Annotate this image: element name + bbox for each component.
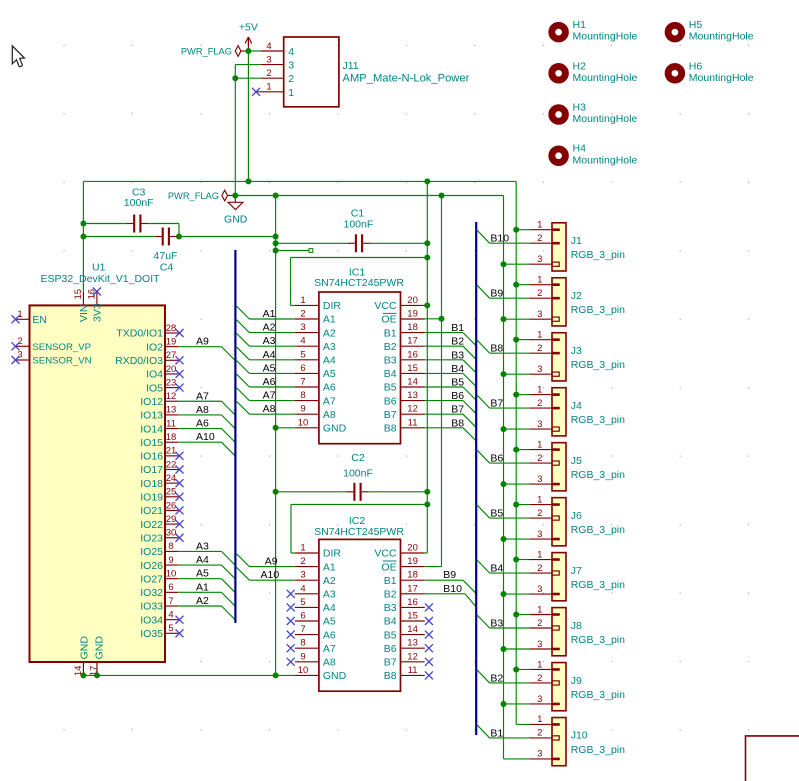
- svg-text:A5: A5: [263, 362, 276, 374]
- U1 pin 5 IO35 (no connect): [164, 632, 178, 634]
- svg-text:19: 19: [407, 309, 418, 320]
- IC2 pin 7 A6 (no connect): [295, 634, 319, 636]
- svg-text:RGB_3_pin: RGB_3_pin: [571, 634, 625, 646]
- svg-text:8: 8: [300, 390, 305, 401]
- svg-text:7: 7: [168, 596, 173, 607]
- J11 pin 1 (no connect): [257, 91, 284, 93]
- svg-text:C4: C4: [160, 262, 174, 274]
- junction GND rail at J8 pin 3: [501, 646, 507, 652]
- svg-text:IO21: IO21: [140, 505, 163, 517]
- svg-text:3: 3: [537, 584, 542, 595]
- svg-text:2: 2: [537, 288, 542, 299]
- svg-text:A6: A6: [263, 376, 276, 388]
- IC1 pin 2 A1: [295, 318, 319, 320]
- svg-text:IO13: IO13: [140, 410, 163, 422]
- svg-text:27: 27: [166, 350, 177, 361]
- svg-text:J2: J2: [571, 290, 582, 302]
- svg-text:1: 1: [266, 82, 271, 93]
- svg-text:28: 28: [166, 323, 177, 334]
- power symbol +5V: [245, 37, 252, 51]
- svg-text:17: 17: [407, 336, 418, 347]
- svg-text:A8: A8: [196, 404, 209, 416]
- svg-text:SENSOR_VN: SENSOR_VN: [32, 356, 91, 367]
- svg-text:B4: B4: [451, 363, 464, 375]
- svg-text:IO17: IO17: [140, 464, 163, 476]
- junction GND rail at J4 pin 3: [501, 426, 507, 432]
- svg-text:4: 4: [300, 336, 305, 347]
- mounting hole H1: [552, 25, 566, 39]
- svg-text:RXD0/IO3: RXD0/IO3: [115, 355, 163, 367]
- svg-text:IO14: IO14: [140, 423, 163, 435]
- U1 pin 2 SENSOR_VP (no connect): [16, 345, 30, 347]
- J2 pin 3: [552, 317, 559, 321]
- svg-text:3: 3: [537, 254, 542, 265]
- svg-text:B7: B7: [384, 409, 397, 421]
- IC2 pin 17 B2: [401, 593, 425, 595]
- svg-text:SN74HCT245PWR: SN74HCT245PWR: [314, 526, 404, 538]
- IC1 pin 5 A4: [295, 359, 319, 361]
- svg-text:19: 19: [407, 556, 418, 567]
- svg-text:1: 1: [537, 274, 542, 285]
- svg-text:30: 30: [166, 528, 177, 539]
- J10 pin 3: [552, 758, 560, 761]
- svg-text:B9: B9: [490, 288, 503, 300]
- J2 pin 2: [552, 297, 560, 300]
- svg-text:4: 4: [288, 46, 294, 58]
- IC1 pin 15 B4: [401, 372, 425, 374]
- J8 pin 2: [552, 626, 559, 630]
- IC2 pin 15 B4 (no connect): [401, 620, 425, 622]
- wire nets B1-B8 from IC1 to bus: [425, 333, 477, 442]
- wire net B3 from bus to J8 pin 2: [477, 614, 490, 628]
- svg-text:3: 3: [288, 60, 294, 72]
- svg-text:16: 16: [407, 597, 418, 608]
- svg-text:13: 13: [407, 638, 418, 649]
- svg-text:IO35: IO35: [140, 628, 163, 640]
- U1 pin 9 IO26 -> net A4: [164, 564, 178, 566]
- IC2 pin 16 B3 (no connect): [401, 606, 425, 608]
- svg-text:4: 4: [266, 41, 271, 52]
- svg-text:4: 4: [168, 609, 173, 620]
- svg-text:IO19: IO19: [140, 492, 163, 504]
- U1 pin 17 GND: [96, 662, 98, 675]
- svg-text:2: 2: [537, 618, 542, 629]
- junction +5V rail at J1 pin 1: [513, 227, 519, 233]
- svg-text:RGB_3_pin: RGB_3_pin: [571, 579, 625, 591]
- svg-text:IO4: IO4: [146, 369, 163, 381]
- svg-text:AMP_Mate-N-Lok_Power: AMP_Mate-N-Lok_Power: [343, 72, 470, 84]
- capacitor C2 100nF: [276, 491, 347, 493]
- svg-text:J6: J6: [571, 510, 582, 522]
- svg-text:MountingHole: MountingHole: [689, 31, 754, 43]
- svg-text:29: 29: [166, 514, 177, 525]
- svg-text:B8: B8: [384, 670, 397, 682]
- J9 pin 1: [552, 668, 560, 671]
- svg-text:18: 18: [407, 570, 418, 581]
- junction GND rail at J1 pin 3: [501, 261, 507, 267]
- svg-text:9: 9: [168, 555, 173, 566]
- U1 pin 21 IO16 (no connect): [164, 455, 178, 457]
- svg-text:MountingHole: MountingHole: [573, 72, 638, 84]
- svg-text:2: 2: [537, 343, 542, 354]
- microcontroller module U1 ESP32_DevKit_V1_DOIT: [30, 305, 166, 662]
- svg-text:A4: A4: [263, 349, 276, 361]
- svg-text:20: 20: [407, 543, 418, 554]
- J8 pin 1: [552, 613, 560, 616]
- svg-text:15: 15: [407, 363, 418, 374]
- svg-text:1: 1: [300, 295, 305, 306]
- IC1 pin 18 B1: [401, 332, 425, 334]
- IC2 pin 10 GND: [295, 674, 319, 676]
- junction C3/C4: [176, 234, 182, 240]
- svg-text:3: 3: [537, 639, 542, 650]
- svg-text:IO27: IO27: [140, 573, 163, 585]
- svg-text:DIR: DIR: [323, 300, 342, 312]
- svg-text:2: 2: [537, 728, 542, 739]
- svg-text:A9: A9: [265, 556, 278, 568]
- svg-text:15: 15: [407, 611, 418, 622]
- IC2 pin 20 VCC: [401, 552, 425, 554]
- svg-text:1: 1: [300, 543, 305, 554]
- junction +5V rail at J2 pin 1: [513, 282, 519, 288]
- svg-text:A1: A1: [196, 581, 209, 593]
- svg-text:RGB_3_pin: RGB_3_pin: [571, 249, 625, 261]
- svg-text:A3: A3: [323, 589, 336, 601]
- svg-text:B9: B9: [443, 569, 456, 581]
- svg-text:2: 2: [266, 68, 271, 79]
- svg-text:A3: A3: [196, 540, 209, 552]
- svg-text:B1: B1: [451, 322, 464, 334]
- wire net B2 from bus to J9 pin 2: [477, 669, 490, 683]
- svg-text:RGB_3_pin: RGB_3_pin: [571, 359, 625, 371]
- J11 pin 4: [260, 50, 283, 52]
- svg-text:14: 14: [407, 624, 418, 635]
- J9 pin 2: [552, 681, 559, 685]
- svg-text:IO25: IO25: [140, 546, 163, 558]
- wire nets A1-A8 from bus to IC1: [236, 305, 295, 414]
- svg-text:1: 1: [537, 549, 542, 560]
- svg-text:3: 3: [537, 694, 542, 705]
- svg-text:ESP32_DevKit_V1_DOIT: ESP32_DevKit_V1_DOIT: [41, 273, 161, 285]
- power flag PWR_FLAG (on +5V): [235, 46, 248, 57]
- svg-text:6: 6: [168, 582, 173, 593]
- svg-text:RGB_3_pin: RGB_3_pin: [571, 524, 625, 536]
- IC1 pin 16 B3: [401, 359, 425, 361]
- U1 pin 23 IO5 (no connect): [164, 387, 178, 389]
- svg-text:B8: B8: [490, 343, 503, 355]
- wire net B5 from bus to J6 pin 2: [477, 505, 490, 519]
- svg-text:1: 1: [537, 220, 542, 231]
- U1 pin 8 IO25 -> net A3: [164, 550, 178, 552]
- IC2 pin 19 OE: [401, 566, 425, 568]
- svg-text:H4: H4: [573, 143, 587, 155]
- svg-text:H2: H2: [573, 60, 587, 72]
- J4 pin 3: [552, 427, 559, 431]
- connector J9 RGB_3_pin: [552, 663, 566, 711]
- J6 pin 3: [552, 538, 560, 541]
- junction +5V rail at J9 pin 1: [513, 666, 519, 672]
- U1 pin 19 IO2 -> net A9: [164, 346, 178, 348]
- svg-text:GND: GND: [79, 636, 91, 660]
- J6 pin 2: [552, 516, 559, 520]
- svg-text:B7: B7: [490, 398, 503, 410]
- svg-text:1: 1: [17, 309, 22, 320]
- IC2 pin 9 A8 (no connect): [295, 661, 319, 663]
- svg-text:1: 1: [537, 384, 542, 395]
- svg-text:C2: C2: [351, 452, 365, 464]
- svg-text:24: 24: [166, 473, 177, 484]
- svg-text:DIR: DIR: [323, 548, 342, 560]
- svg-text:9: 9: [300, 651, 305, 662]
- svg-text:IO22: IO22: [140, 519, 163, 531]
- junction GND rail at J9 pin 3: [501, 701, 507, 707]
- svg-text:MountingHole: MountingHole: [573, 154, 638, 166]
- svg-text:A7: A7: [323, 643, 336, 655]
- svg-text:1: 1: [537, 494, 542, 505]
- connector J10 RGB_3_pin: [552, 718, 566, 766]
- junction +5V rail at J3 pin 1: [513, 337, 519, 343]
- wire +5V net: [83, 51, 516, 724]
- IC1 pin 1 DIR: [295, 304, 319, 306]
- svg-text:H6: H6: [689, 60, 703, 72]
- IC2 pin 8 A7 (no connect): [295, 647, 319, 649]
- J4 pin 2: [552, 407, 560, 410]
- svg-text:H3: H3: [573, 102, 587, 114]
- U1 pin 3 SENSOR_VN (no connect): [16, 359, 30, 361]
- wire net B4 from bus to J7 pin 2: [477, 560, 490, 574]
- J6 pin 1: [552, 503, 560, 506]
- svg-text:A6: A6: [323, 629, 336, 641]
- bus (right, B1-B10): [475, 222, 477, 735]
- mouse cursor: [12, 46, 24, 67]
- svg-text:100nF: 100nF: [124, 197, 154, 209]
- junction +5V rail at J6 pin 1: [513, 502, 519, 508]
- svg-text:A9: A9: [196, 336, 209, 348]
- svg-text:9: 9: [300, 404, 305, 415]
- J10 pin 1: [552, 723, 560, 726]
- svg-text:3: 3: [537, 309, 542, 320]
- svg-text:A2: A2: [263, 322, 276, 334]
- svg-text:3: 3: [537, 529, 542, 540]
- svg-text:OE: OE: [381, 314, 396, 326]
- svg-text:2: 2: [288, 73, 294, 85]
- J11 pin 3: [260, 64, 283, 66]
- svg-text:GND: GND: [323, 423, 347, 435]
- svg-text:6: 6: [300, 611, 305, 622]
- svg-text:1: 1: [537, 714, 542, 725]
- svg-text:10: 10: [298, 417, 309, 428]
- svg-text:B3: B3: [490, 617, 503, 629]
- J4 pin 1: [552, 393, 560, 396]
- IC2 pin 6 A5 (no connect): [295, 620, 319, 622]
- J1 pin 3: [552, 262, 559, 266]
- svg-text:A4: A4: [323, 602, 336, 614]
- svg-text:IO2: IO2: [146, 341, 163, 353]
- svg-text:13: 13: [166, 405, 177, 416]
- IC1 pin 10 GND: [295, 427, 319, 429]
- svg-text:B6: B6: [384, 643, 397, 655]
- svg-text:B7: B7: [451, 404, 464, 416]
- svg-text:B2: B2: [384, 589, 397, 601]
- svg-text:14: 14: [407, 377, 418, 388]
- svg-text:GND: GND: [224, 213, 248, 225]
- svg-text:B6: B6: [490, 453, 503, 465]
- svg-text:MountingHole: MountingHole: [689, 72, 754, 84]
- junction GND rail at J6 pin 3: [501, 536, 507, 542]
- connector J6 RGB_3_pin: [552, 498, 566, 546]
- svg-text:3: 3: [300, 570, 305, 581]
- junction GND rail at J5 pin 3: [501, 481, 507, 487]
- U1 pin 6 IO32 -> net A1: [164, 591, 178, 593]
- svg-text:IO16: IO16: [140, 451, 163, 463]
- svg-text:47uF: 47uF: [154, 250, 178, 262]
- connector J2 RGB_3_pin: [552, 278, 566, 326]
- svg-text:+5V: +5V: [239, 22, 258, 34]
- svg-text:11: 11: [408, 417, 418, 428]
- svg-text:B8: B8: [384, 423, 397, 435]
- IC1 pin 3 A2: [295, 332, 319, 334]
- svg-text:2: 2: [537, 508, 542, 519]
- J11 pin 2: [260, 77, 283, 79]
- J7 pin 3: [552, 593, 560, 596]
- svg-text:2: 2: [537, 233, 542, 244]
- U1 pin 12 IO12 -> net A7: [164, 400, 178, 402]
- svg-text:17: 17: [407, 583, 418, 594]
- svg-text:20: 20: [166, 364, 177, 375]
- svg-text:OE: OE: [381, 561, 396, 573]
- IC2 pin 3 A2: [295, 579, 319, 581]
- capacitor C3: [83, 223, 126, 225]
- U1 pin 16 3V3 (no connect): [96, 292, 98, 306]
- svg-text:B3: B3: [384, 355, 397, 367]
- svg-text:J3: J3: [571, 345, 582, 357]
- svg-text:A6: A6: [323, 382, 336, 394]
- connector J3 RGB_3_pin: [552, 333, 566, 381]
- svg-text:B4: B4: [384, 368, 397, 380]
- svg-text:B8: B8: [451, 417, 464, 429]
- svg-text:B3: B3: [451, 349, 464, 361]
- capacitor C1 100nF: [276, 242, 348, 244]
- J5 pin 2: [552, 461, 559, 465]
- junction +5V rail at J4 pin 1: [513, 392, 519, 398]
- svg-text:B4: B4: [384, 616, 397, 628]
- svg-text:2: 2: [300, 556, 305, 567]
- svg-text:7: 7: [300, 377, 305, 388]
- J3 pin 3: [552, 372, 559, 376]
- svg-text:100nF: 100nF: [343, 468, 373, 480]
- buffer IC1 SN74HCT245PWR: [319, 292, 401, 444]
- svg-text:2: 2: [537, 453, 542, 464]
- svg-text:A8: A8: [263, 403, 276, 415]
- svg-text:4: 4: [300, 583, 305, 594]
- svg-text:B5: B5: [490, 508, 503, 520]
- svg-text:2: 2: [537, 563, 542, 574]
- svg-text:B7: B7: [384, 657, 397, 669]
- mounting hole H3: [552, 108, 566, 122]
- svg-text:3: 3: [266, 54, 271, 65]
- buffer IC2 SN74HCT245PWR: [319, 539, 401, 691]
- junction +5V rail at J5 pin 1: [513, 447, 519, 453]
- svg-text:IO5: IO5: [146, 382, 163, 394]
- svg-text:VIN: VIN: [78, 304, 90, 322]
- IC2 pin 13 B6 (no connect): [401, 647, 425, 649]
- wire net B10 from IC2 to bus: [425, 593, 465, 595]
- J3 pin 2: [552, 352, 560, 355]
- svg-text:3: 3: [17, 350, 22, 361]
- svg-text:8: 8: [168, 541, 173, 552]
- U1 pin 13 IO13 -> net A8: [164, 414, 178, 416]
- IC1 pin 19 OE: [401, 318, 425, 320]
- svg-text:A2: A2: [323, 327, 336, 339]
- svg-text:2: 2: [300, 309, 305, 320]
- svg-text:A7: A7: [323, 395, 336, 407]
- svg-text:B1: B1: [384, 327, 397, 339]
- U1 pin 29 IO22 (no connect): [164, 523, 178, 525]
- mounting hole H5: [668, 25, 682, 39]
- svg-text:A3: A3: [323, 341, 336, 353]
- IC1 pin 9 A8: [295, 413, 319, 415]
- svg-text:MountingHole: MountingHole: [573, 31, 638, 43]
- U1 pin 20 IO4 (no connect): [164, 373, 178, 375]
- J5 pin 1: [552, 448, 560, 451]
- svg-text:1: 1: [537, 439, 542, 450]
- svg-text:GND: GND: [94, 636, 106, 660]
- U1 pin 28 TXD0/IO1 (no connect): [164, 332, 178, 334]
- svg-text:18: 18: [166, 432, 177, 443]
- svg-text:3: 3: [537, 364, 542, 375]
- svg-text:SENSOR_VP: SENSOR_VP: [32, 342, 91, 353]
- svg-text:15: 15: [73, 289, 84, 300]
- connector J4 RGB_3_pin: [552, 388, 566, 436]
- IC2 pin 1 DIR: [295, 552, 319, 554]
- svg-text:19: 19: [166, 336, 177, 347]
- U1 pin 7 IO33 -> net A2: [164, 605, 178, 607]
- capacitor C4 47uF: [83, 236, 154, 238]
- svg-text:B5: B5: [451, 377, 464, 389]
- svg-text:1: 1: [537, 604, 542, 615]
- mounting hole H2: [552, 67, 566, 81]
- svg-text:IO12: IO12: [140, 396, 163, 408]
- svg-text:A5: A5: [323, 616, 336, 628]
- svg-text:IO32: IO32: [140, 587, 163, 599]
- svg-text:A5: A5: [196, 568, 209, 580]
- svg-text:RGB_3_pin: RGB_3_pin: [571, 744, 625, 756]
- svg-text:A8: A8: [323, 657, 336, 669]
- U1 pin 30 IO23 (no connect): [164, 537, 178, 539]
- svg-text:12: 12: [407, 404, 418, 415]
- svg-text:3: 3: [537, 419, 542, 430]
- svg-text:B2: B2: [451, 336, 464, 348]
- svg-text:J10: J10: [571, 730, 588, 742]
- wire dangling GND stub with open end: [276, 250, 309, 252]
- U1 pin 26 IO21 (no connect): [164, 509, 178, 511]
- J3 pin 1: [552, 338, 560, 341]
- J7 pin 2: [552, 571, 559, 575]
- svg-text:100nF: 100nF: [344, 219, 374, 231]
- svg-text:23: 23: [166, 377, 177, 388]
- connector J5 RGB_3_pin: [552, 443, 566, 491]
- U1 pin 15 VIN: [82, 292, 84, 306]
- connector J11 AMP_Mate-N-Lok_Power: [284, 37, 339, 107]
- svg-text:J7: J7: [571, 565, 582, 577]
- U1 pin 4 IO34 (no connect): [164, 619, 178, 621]
- svg-text:12: 12: [407, 651, 418, 662]
- svg-text:5: 5: [168, 623, 173, 634]
- wire net A9 from bus to IC2: [236, 553, 250, 567]
- svg-text:RGB_3_pin: RGB_3_pin: [571, 414, 625, 426]
- ground symbol GND: [228, 196, 243, 210]
- connector J1 RGB_3_pin: [552, 223, 566, 271]
